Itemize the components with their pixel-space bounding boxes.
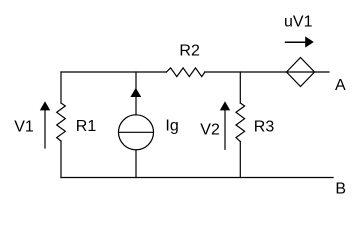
voltage arrow V2 head — [220, 101, 230, 110]
resistor R1 — [57, 103, 66, 141]
wire right branch upper — [239, 72, 241, 103]
current source Ig arrow head — [130, 88, 141, 97]
resistor R3 — [236, 103, 245, 142]
wire left vertical lower — [60, 141, 62, 178]
svg-text:V1: V1 — [14, 119, 34, 136]
svg-text:R2: R2 — [179, 43, 200, 60]
wire right branch lower — [239, 142, 241, 178]
wire bottom rail — [61, 177, 333, 179]
svg-text:A: A — [335, 77, 346, 94]
wire top rail left segment — [61, 71, 166, 73]
voltage arrow V1 line — [44, 108, 46, 148]
svg-text:uV1: uV1 — [284, 14, 313, 31]
resistor R2 — [166, 68, 205, 77]
svg-text:B: B — [335, 181, 346, 198]
wire middle branch lower — [135, 150, 137, 178]
svg-text:R3: R3 — [254, 118, 275, 135]
wire left vertical upper — [60, 72, 62, 103]
control arrow uV1 head — [305, 36, 314, 47]
current source Ig bar — [119, 131, 154, 133]
svg-text:R1: R1 — [76, 118, 97, 135]
svg-text:V2: V2 — [200, 121, 220, 138]
current source Ig circle — [119, 115, 154, 150]
wire middle branch upper — [135, 72, 137, 115]
wire top rail right segment — [205, 71, 329, 73]
control arrow uV1 line — [286, 41, 307, 43]
svg-text:Ig: Ig — [165, 118, 178, 135]
voltage arrow V1 head — [40, 101, 50, 110]
controlled source uV1 diamond — [287, 58, 315, 87]
voltage arrow V2 line — [224, 108, 226, 149]
